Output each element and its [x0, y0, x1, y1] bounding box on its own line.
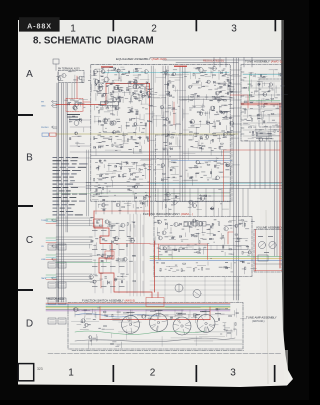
resistor R49 [136, 176, 139, 177]
wire (cyan trace) [150, 182, 282, 184]
wire [232, 164, 239, 166]
wire [122, 97, 124, 103]
svg-text:CD: CD [41, 246, 45, 248]
transistor Q4 [74, 102, 78, 106]
wire [169, 131, 171, 137]
wire [235, 309, 237, 318]
transistor Q6 [73, 106, 77, 110]
wire [94, 244, 96, 256]
resistor R63 [256, 133, 257, 136]
wire [230, 123, 241, 125]
wire [129, 98, 131, 104]
resistor R86 [245, 267, 246, 270]
wire [96, 336, 98, 340]
wire [142, 281, 144, 293]
wire [103, 138, 109, 140]
svg-text:TUNE AMP ASSEMBLY: TUNE AMP ASSEMBLY [246, 316, 277, 320]
wire [177, 90, 179, 104]
resistor R68 [241, 220, 244, 221]
wire [94, 225, 96, 237]
resistor R69 [194, 236, 197, 237]
wire [46, 237, 56, 239]
wire [185, 233, 187, 237]
wire [96, 243, 98, 250]
wire [150, 256, 282, 258]
resistor R105 [112, 314, 113, 317]
wire [232, 73, 239, 75]
wire [74, 310, 76, 317]
wire [167, 224, 169, 228]
diode D25 [170, 143, 172, 145]
svg-text:2: 2 [151, 24, 157, 35]
wire [169, 134, 175, 136]
wire [151, 96, 160, 98]
wire [194, 72, 201, 74]
resistor R81 [181, 269, 182, 272]
wire [257, 81, 262, 83]
wire [195, 315, 198, 317]
wire [257, 114, 259, 119]
capacitor C35 [119, 167, 121, 169]
wire [71, 321, 98, 323]
wire [91, 151, 230, 153]
diode D42 [175, 249, 177, 251]
wire [228, 246, 230, 250]
wire [93, 71, 102, 73]
wire [82, 309, 90, 311]
wire [212, 74, 214, 78]
wire [139, 91, 153, 93]
wire [181, 238, 188, 240]
wire [171, 198, 179, 200]
resistor R107 [235, 323, 236, 326]
wire [140, 78, 149, 80]
wire [86, 150, 88, 216]
resistor R48 [123, 174, 124, 177]
wire [104, 111, 110, 113]
wire [113, 238, 120, 240]
wire [46, 304, 230, 306]
wire [179, 66, 181, 201]
wire [142, 225, 144, 237]
wire [241, 119, 244, 121]
wire [70, 182, 91, 184]
wire [258, 114, 261, 116]
wire [159, 310, 161, 317]
capacitor C44 [260, 74, 262, 76]
wire [205, 139, 208, 141]
wire (red signal highlight) [157, 292, 159, 298]
capacitor C25 [136, 113, 138, 115]
wire [105, 82, 113, 84]
wire [200, 121, 202, 127]
wire [230, 115, 241, 117]
capacitor C37 [118, 175, 120, 177]
wire [173, 89, 185, 91]
wire [77, 77, 79, 81]
wire [195, 331, 232, 333]
wire [194, 74, 196, 78]
wire [230, 99, 241, 101]
wire [135, 201, 137, 214]
wire [171, 173, 179, 175]
wire [56, 225, 92, 227]
wire [121, 276, 128, 278]
resistor R32 [171, 137, 174, 138]
wire [219, 135, 221, 142]
highlight box (red selector section) [105, 251, 114, 259]
resistor R7 [122, 73, 125, 74]
diode D44 [243, 261, 245, 263]
wire [170, 112, 172, 115]
diode D37 [258, 84, 260, 86]
capacitor C19 [214, 97, 216, 99]
transistor Q16 [98, 86, 103, 91]
wire [102, 281, 104, 293]
wire [252, 137, 259, 139]
wire [162, 97, 167, 99]
wire [133, 172, 142, 174]
wire [130, 310, 132, 315]
wire [265, 125, 267, 130]
wire [120, 161, 122, 168]
transistor Q21 [172, 72, 175, 75]
resistor R106 [193, 315, 196, 316]
wire [250, 80, 252, 88]
wire (red signal highlight) [83, 101, 91, 103]
wire [197, 208, 202, 210]
wire [182, 180, 198, 182]
wire [213, 58, 215, 68]
wire [244, 108, 246, 113]
wire [240, 318, 246, 320]
label: parts list [53, 157, 58, 158]
transistor Q5 [73, 106, 77, 110]
wire [186, 334, 207, 336]
wire [275, 86, 277, 93]
wire [99, 105, 104, 107]
rotary switch S2 (rec select) [150, 314, 168, 332]
wire [154, 69, 156, 83]
capacitor C30 [130, 136, 132, 138]
resistor R74 [179, 249, 180, 252]
wire [65, 83, 67, 232]
wire [140, 159, 151, 161]
wire [183, 109, 185, 118]
svg-text:PH: PH [41, 102, 44, 104]
wire [145, 126, 147, 139]
wire (red signal highlight, right edge bus) [279, 105, 281, 268]
wire [258, 118, 262, 120]
wire [169, 238, 176, 240]
wire [197, 162, 204, 164]
transistor Q23 [199, 68, 204, 73]
capacitor C39 [210, 172, 212, 174]
wire [165, 66, 167, 201]
wire [150, 66, 152, 216]
wire [260, 78, 268, 80]
wire [97, 165, 99, 170]
transistor Q17 [93, 70, 97, 74]
wire [177, 138, 179, 146]
transistor Q68 [192, 204, 196, 208]
capacitor C54 [222, 246, 224, 248]
wire [269, 69, 275, 71]
wire [123, 162, 126, 164]
wire (red signal highlight, selector path) [94, 211, 152, 298]
wire [156, 77, 165, 79]
wire [124, 202, 131, 204]
wire [200, 111, 202, 115]
wire [187, 148, 189, 160]
wire [92, 225, 100, 227]
wire [171, 251, 173, 259]
resistor R79 [162, 262, 165, 263]
wire [219, 58, 221, 68]
wire [221, 234, 223, 240]
wire [238, 58, 240, 300]
wire [72, 350, 244, 352]
wire [121, 151, 134, 153]
wire [117, 344, 120, 346]
resistor R23 [223, 111, 224, 114]
transistor Q34 [103, 118, 108, 123]
resistor R55 [249, 95, 252, 96]
wire [197, 143, 199, 149]
resistor R29 [117, 132, 120, 133]
wire [176, 123, 180, 125]
transistor Q7 [118, 89, 121, 92]
transistor Q82 [81, 319, 85, 323]
resistor R39 [220, 143, 223, 144]
wire [167, 66, 169, 201]
wire [204, 198, 207, 200]
wire [233, 58, 235, 300]
svg-text:8. SCHEMATIC DIAGRAM: 8. SCHEMATIC DIAGRAM [33, 36, 154, 47]
wire [46, 222, 56, 224]
resistor R83 [193, 268, 194, 271]
wire [136, 214, 138, 296]
transistor Q12 [141, 93, 145, 97]
wire [46, 256, 56, 258]
wire [220, 96, 227, 98]
wire [261, 83, 263, 88]
wire [237, 277, 239, 303]
wire [166, 82, 168, 89]
wire [106, 280, 108, 284]
wire [167, 250, 176, 252]
wire [164, 97, 166, 104]
wire [120, 259, 124, 261]
wire [86, 318, 91, 320]
connector PHONO [52, 126, 54, 128]
diode D38 [166, 223, 168, 225]
wire [97, 255, 106, 257]
wire [112, 318, 120, 320]
resistor R43 [139, 169, 140, 172]
wire [106, 186, 108, 194]
wire [56, 258, 92, 260]
resistor R67 [244, 223, 245, 226]
connector CN41 [48, 298, 56, 304]
capacitor C32 [121, 146, 123, 148]
resistor R34 [212, 139, 213, 142]
wire [269, 129, 277, 131]
wire [94, 281, 96, 293]
resistor R6 [218, 99, 219, 102]
component: input filter [53, 59, 59, 64]
wire [100, 273, 103, 275]
resistor R103 [228, 333, 231, 334]
capacitor C13 [129, 80, 131, 82]
wire [81, 119, 83, 123]
resistor R62 [249, 127, 252, 128]
wire [117, 139, 122, 141]
svg-text:FUNCTION SWITCH ASSEMBLY (AWS-: FUNCTION SWITCH ASSEMBLY (AWS-5) [82, 298, 135, 302]
wire [222, 119, 228, 121]
wire [143, 214, 145, 296]
resistor R82 [183, 263, 186, 264]
assembly outline: FL FUNC INDICATOR ASSEMBLY [154, 217, 252, 277]
transistor Q13 [215, 91, 219, 95]
wire [197, 264, 206, 266]
wire [223, 322, 226, 324]
wire [56, 276, 92, 278]
transistor Q1 [104, 77, 109, 82]
wire [141, 100, 143, 104]
wire [149, 139, 155, 141]
wire (red signal highlight) [158, 244, 160, 260]
wire [226, 330, 232, 332]
wire [261, 106, 266, 108]
wire [132, 70, 134, 73]
wire [259, 106, 261, 113]
wire [251, 58, 253, 68]
wire (red signal highlight) [207, 244, 209, 260]
wire [141, 124, 146, 126]
wire [215, 82, 223, 84]
resistor R8 [193, 73, 194, 76]
wire [209, 200, 216, 202]
svg-text:(AWH-021): (AWH-021) [252, 320, 265, 323]
wire [88, 341, 90, 349]
wire [226, 79, 234, 81]
wire [129, 80, 137, 82]
wire [94, 310, 96, 317]
wire [243, 80, 280, 82]
wire [163, 112, 165, 118]
diode D27 [115, 165, 117, 167]
wire [234, 246, 236, 250]
connector CN12 [58, 244, 66, 250]
transistor Q28 [103, 93, 106, 96]
wire [189, 226, 191, 233]
wire [229, 189, 231, 217]
wire [194, 96, 196, 108]
transistor Q53 [263, 92, 267, 96]
wire [220, 110, 227, 112]
resistor R73 [235, 234, 238, 235]
wire [88, 244, 90, 248]
wire [150, 294, 240, 296]
wire [126, 225, 128, 237]
wire [144, 86, 150, 88]
wire [197, 189, 199, 217]
wire [56, 220, 92, 222]
potentiometer VR1 (volume) [258, 255, 268, 261]
wire [241, 87, 244, 89]
wire [118, 134, 126, 136]
wire [101, 93, 109, 95]
wire [98, 166, 100, 169]
wire [182, 66, 184, 201]
wire [116, 111, 118, 116]
wire (red signal highlight, main vertical) [149, 84, 151, 217]
wire [271, 113, 277, 115]
transistor Q75 [114, 236, 118, 240]
wire [243, 108, 280, 110]
resistor R75 [199, 248, 200, 251]
wire [139, 178, 143, 180]
diode D45 [143, 203, 145, 205]
wire [56, 236, 92, 238]
resistor R65 [212, 223, 213, 226]
wire [249, 101, 254, 103]
wire [97, 85, 104, 87]
wire [146, 194, 148, 199]
wire [201, 82, 203, 88]
wire [117, 310, 119, 317]
wire [244, 221, 246, 227]
connector CN31 [48, 282, 56, 288]
transistor Q41 [230, 121, 234, 125]
wire [276, 129, 281, 131]
wire [92, 309, 94, 313]
wire [93, 280, 102, 282]
wire [222, 246, 224, 250]
wire (red signal highlight) [105, 84, 107, 105]
highlight box (red dashed, phono eq) [66, 99, 83, 112]
wire [181, 310, 183, 315]
wire [177, 313, 180, 315]
wire [114, 87, 117, 89]
transistor Q69 [189, 200, 193, 204]
wire (red signal highlight) [114, 243, 150, 245]
wire [136, 80, 138, 86]
transistor Q45 [161, 164, 165, 168]
wire [152, 66, 154, 216]
resistor R88 [140, 203, 143, 204]
svg-text:B: B [26, 153, 33, 164]
diode D10 [214, 81, 216, 83]
wire [134, 129, 136, 136]
wire [176, 61, 238, 63]
transistor Q38 [165, 118, 168, 121]
wire [150, 289, 240, 291]
wire [145, 202, 147, 207]
wire [241, 111, 244, 113]
wire [75, 338, 235, 342]
transistor Q33 [210, 106, 214, 110]
wire [137, 124, 145, 126]
wire [201, 104, 203, 110]
wire [273, 89, 275, 98]
wire [118, 261, 120, 273]
wire (blue trace) [171, 160, 232, 162]
wire [103, 201, 105, 214]
wire [236, 330, 238, 336]
capacitor C17 [112, 91, 114, 93]
